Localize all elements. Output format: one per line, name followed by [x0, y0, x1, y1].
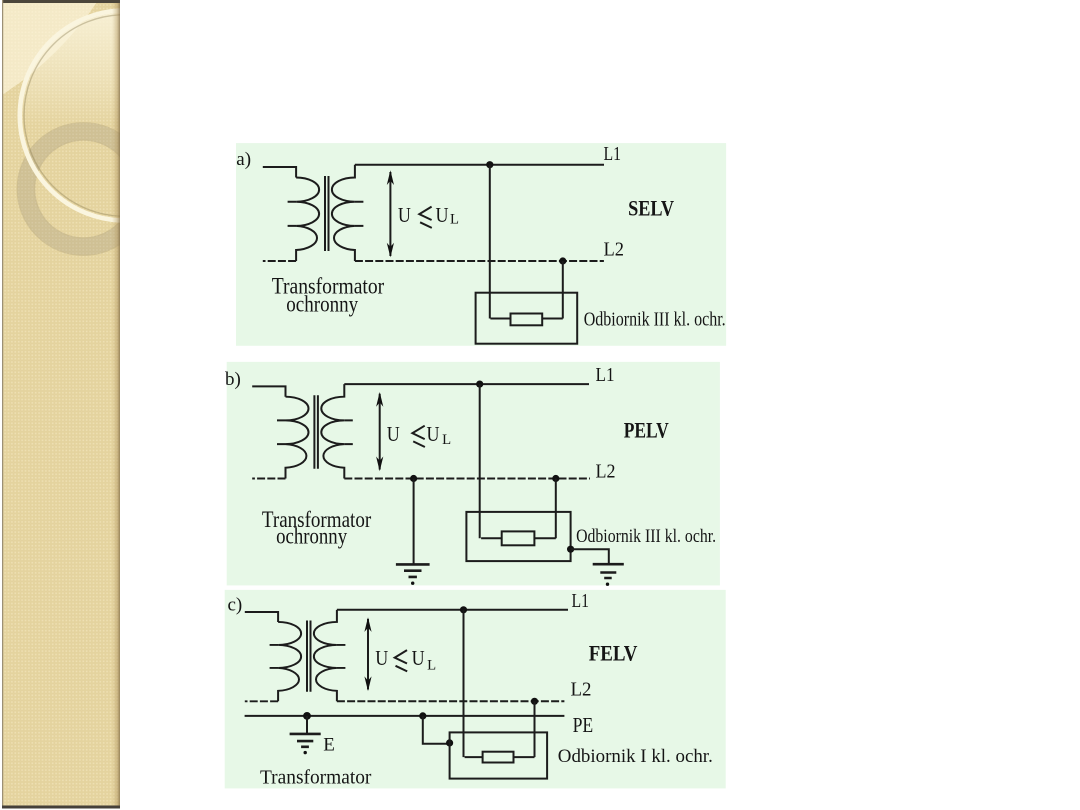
wire from L2 node down (panel b): [555, 479, 557, 539]
transformer T3 (panel c): [245, 610, 346, 701]
node on L2 (panel c): [531, 698, 538, 705]
ground wire left (panel b): [413, 479, 415, 565]
resistor (panel a): [511, 314, 543, 326]
voltage arrow (panel a): [389, 172, 391, 256]
svg-text:SELV: SELV: [628, 196, 674, 221]
panel a background: [236, 143, 726, 346]
earth wire E (panel c): [306, 716, 308, 733]
svg-text:L2: L2: [596, 461, 616, 483]
node on L1 (panel b): [476, 381, 483, 388]
inner wire (panel c): [465, 756, 535, 758]
sidebar donut ring: [26, 132, 141, 247]
svg-text:U: U: [412, 646, 425, 670]
wire from L1 node down (panel c): [463, 610, 465, 757]
svg-text:U: U: [436, 203, 449, 227]
wire L1 (panel c): [337, 609, 568, 611]
svg-text:L1: L1: [596, 364, 615, 386]
load box (panel b): [466, 512, 570, 561]
sidebar borders: [2, 0, 120, 3]
svg-text:L: L: [442, 432, 451, 448]
wire from L2 node down (panel c): [534, 701, 536, 757]
ground symbol E (panel c): [290, 734, 321, 747]
node on L2 (panel a): [559, 257, 566, 264]
sidebar circle glow fill: [22, 13, 227, 218]
wire from L1 node down (panel b): [479, 384, 481, 538]
voltage arrow (panel c): [367, 619, 369, 690]
svg-text:Odbiornik III kl. ochr.: Odbiornik III kl. ochr.: [584, 309, 726, 331]
svg-text:FELV: FELV: [589, 641, 638, 666]
transformer T1 (panel a): [263, 165, 364, 261]
node PE load tap (panel c): [419, 712, 426, 719]
wire L1 (panel a): [355, 164, 604, 166]
node on L1 (panel a): [486, 161, 493, 168]
sidebar cream ring: [20, 11, 230, 221]
sidebar light corner circle: [0, 0, 154, 148]
voltage arrow (panel b): [379, 394, 381, 470]
transformer T2 (panel b): [252, 384, 353, 478]
sidebar right edge shading: [112, 0, 120, 808]
wire L2 (panel a, dashed): [355, 260, 604, 262]
svg-text:c): c): [228, 595, 243, 616]
svg-text:E: E: [323, 734, 335, 755]
node earth tap on PE (panel c): [303, 712, 311, 720]
svg-text:L2: L2: [571, 679, 592, 701]
sidebar background: [2, 0, 120, 808]
node on L1 (panel c): [460, 606, 467, 613]
ground wire right (panel b): [571, 549, 609, 563]
svg-text:U: U: [427, 422, 440, 446]
wire from L2 node down (panel a): [562, 261, 564, 319]
node on load box edge (panel b): [567, 546, 574, 553]
svg-text:ochronny: ochronny: [276, 524, 347, 549]
inner wire (panel a): [490, 318, 562, 320]
node ground tap (panel b): [410, 475, 417, 482]
resistor (panel b): [502, 531, 535, 545]
panel c background: [225, 590, 726, 789]
svg-text:Transformator: Transformator: [260, 766, 372, 788]
resistor (panel c): [483, 752, 514, 763]
svg-text:L1: L1: [572, 590, 590, 612]
ground symbol right (panel b): [593, 564, 624, 578]
wire from L1 node down (panel a): [489, 165, 491, 319]
svg-text:a): a): [236, 149, 251, 170]
sidebar cream ring shadow: [24, 15, 226, 217]
node load tap on L2 (panel b): [552, 475, 559, 482]
ground symbol left (panel b): [396, 564, 430, 577]
wire PE tap to load box (panel c): [423, 716, 450, 744]
svg-text:Odbiornik III kl. ochr.: Odbiornik III kl. ochr.: [576, 527, 716, 547]
svg-text:U: U: [375, 646, 388, 670]
node on load box edge (panel c): [446, 739, 453, 746]
svg-text:PE: PE: [573, 713, 594, 737]
panel b background: [227, 362, 720, 586]
svg-text:L: L: [427, 658, 436, 674]
wire L2 (panel c, dashed): [337, 700, 565, 702]
svg-text:U: U: [387, 422, 400, 446]
svg-text:b): b): [225, 369, 241, 390]
svg-text:U: U: [398, 203, 411, 227]
load box (panel a): [476, 293, 578, 344]
svg-text:Odbiornik I kl. ochr.: Odbiornik I kl. ochr.: [558, 747, 713, 767]
svg-text:L: L: [450, 212, 459, 228]
load box (panel c): [450, 732, 547, 778]
inner wire (panel b): [481, 537, 556, 539]
wire PE (panel c): [245, 715, 565, 717]
wire L1 (panel b): [344, 383, 589, 385]
svg-text:ochronny: ochronny: [286, 292, 358, 317]
svg-text:PELV: PELV: [624, 417, 669, 442]
svg-text:L1: L1: [604, 143, 622, 165]
svg-text:L2: L2: [604, 238, 625, 260]
wire L2 (panel b, dashed): [344, 478, 590, 480]
